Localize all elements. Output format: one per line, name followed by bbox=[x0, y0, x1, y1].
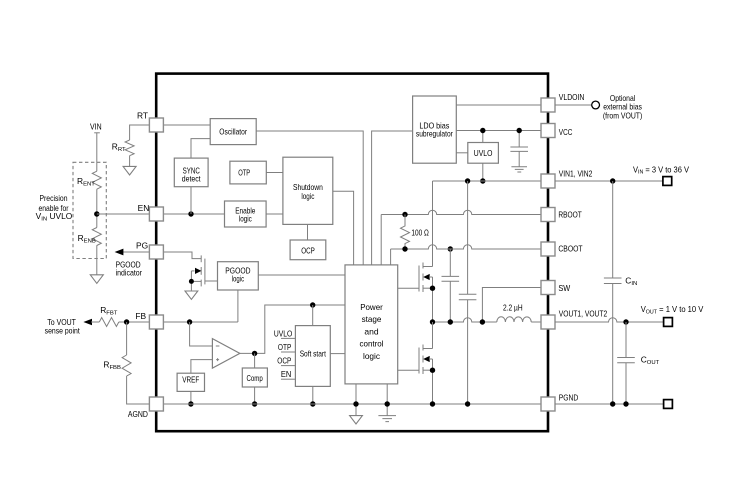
wire VIN pin to input terminal bbox=[555, 180, 663, 182]
pin VOUT1, VOUT2 bbox=[541, 308, 607, 329]
wire CBOOT line with hops bbox=[391, 245, 541, 265]
terminal VIN input bbox=[663, 177, 672, 186]
pin stub EN of soft start bbox=[281, 369, 296, 379]
node FB divider junction bbox=[124, 319, 129, 324]
wire LDO to UVLO bbox=[456, 152, 468, 154]
wire Soft start output to power stage bbox=[330, 353, 345, 355]
ground (triangle) below RRT bbox=[123, 166, 136, 175]
ground (triangle) below RENB bbox=[90, 275, 103, 284]
wire Enable logic to Shutdown logic bbox=[266, 213, 283, 215]
block LDO bias subregulator bbox=[413, 96, 457, 163]
block VREF bbox=[177, 373, 204, 391]
node SW-line left junction bbox=[430, 319, 435, 324]
svg-text:Precision: Precision bbox=[40, 193, 68, 203]
dashed precision-enable box bbox=[73, 162, 106, 258]
pin EN bbox=[138, 203, 164, 221]
node RBOOT-R100 junction bbox=[402, 212, 407, 217]
svg-text:UVLO: UVLO bbox=[274, 328, 293, 338]
wire FB pin to PGOOD vertical bbox=[163, 321, 238, 323]
node VIN-bypass junction bbox=[465, 178, 470, 183]
svg-text:2.2 µH: 2.2 µH bbox=[503, 302, 523, 312]
wire EN pin to Enable logic bbox=[163, 213, 224, 215]
svg-text:VOUT1, VOUT2: VOUT1, VOUT2 bbox=[559, 308, 608, 318]
block Oscillator bbox=[210, 119, 256, 145]
pin stub OTP of soft start bbox=[278, 342, 296, 352]
wire PG FET gate to PGOOD logic bbox=[205, 280, 218, 282]
terminal VLDOIN open circle bbox=[592, 101, 600, 109]
arrow to VOUT sense point bbox=[83, 319, 99, 325]
svg-text:OTP: OTP bbox=[278, 342, 292, 352]
wire Soft start bottom to AGND line bbox=[312, 386, 314, 404]
svg-text:VIN: VIN bbox=[90, 122, 102, 132]
ground (earth) below VCC cap bbox=[511, 167, 527, 172]
svg-text:FB: FB bbox=[135, 311, 146, 321]
wire RBOOT line with hops bbox=[381, 210, 541, 265]
pin stub UVLO of soft start bbox=[274, 328, 296, 338]
node powerstage-gnd2 junction bbox=[385, 401, 390, 406]
capacitor CBOOT bbox=[442, 249, 460, 322]
svg-text:Soft start: Soft start bbox=[300, 349, 327, 359]
node CBOOT-R100 junction bbox=[402, 246, 407, 251]
svg-text:PG: PG bbox=[136, 240, 148, 250]
transistor Q3 low-side FET bbox=[398, 322, 435, 404]
node comp line to soft start junction bbox=[310, 302, 315, 307]
node UVLO-VCC junction bbox=[480, 128, 485, 133]
svg-text:CBOOT: CBOOT bbox=[558, 244, 582, 254]
wire RFBB to AGND bbox=[127, 376, 150, 404]
wire OTP to Shutdown logic bbox=[266, 172, 283, 174]
node SoftStart-AGND junction bbox=[310, 401, 315, 406]
capacitor VCC bypass bbox=[510, 131, 528, 167]
svg-text:UVLO: UVLO bbox=[474, 148, 493, 158]
ground (triangle) analog bbox=[350, 416, 363, 424]
wire FB node down to RFBB bbox=[126, 322, 128, 355]
wire junction down to Soft start bbox=[312, 305, 314, 326]
svg-text:control: control bbox=[360, 339, 384, 349]
svg-text:OCP: OCP bbox=[277, 356, 291, 366]
svg-text:VIN UVLO: VIN UVLO bbox=[36, 211, 73, 222]
wire Shutdown logic output to power stage bbox=[333, 191, 354, 265]
node op-amp output junction bbox=[252, 351, 257, 356]
node VIN bbox=[90, 122, 102, 133]
wire VOUT pin to output terminal with hop bbox=[555, 318, 664, 322]
svg-text:Comp: Comp bbox=[247, 373, 263, 383]
node CBOOT-cap junction bbox=[448, 246, 453, 251]
resistor RRT bbox=[112, 140, 134, 156]
IC boundary box bbox=[156, 74, 548, 432]
wire Oscillator output to power stage bbox=[256, 131, 363, 265]
wire VIN line down to high-side FET drain bbox=[432, 181, 434, 267]
pin VIN1, VIN2 bbox=[541, 169, 593, 188]
svg-text:detect: detect bbox=[182, 173, 201, 183]
svg-text:logic: logic bbox=[232, 273, 244, 283]
wire UVLO bottom to VIN line bbox=[482, 163, 484, 181]
wire CBOOT line to cap gap fill bbox=[446, 248, 454, 250]
svg-text:Oscillator: Oscillator bbox=[219, 126, 247, 136]
wire power stage bottom right to ground rail bbox=[386, 384, 388, 416]
pin RBOOT bbox=[541, 208, 582, 222]
wire SYNC detect top to Oscillator bbox=[191, 139, 210, 159]
node bypass-PGND junction bbox=[465, 401, 470, 406]
wire power stage bottom left to ground rail bbox=[355, 384, 357, 416]
ground (earth) power bbox=[378, 416, 396, 422]
node UVLO-VIN junction bbox=[480, 178, 485, 183]
node LSFET-PGND junction bbox=[430, 401, 435, 406]
wire PGND pin to ground terminal bbox=[555, 403, 664, 405]
block OCP bbox=[290, 240, 326, 260]
capacitor COUT bbox=[617, 322, 659, 404]
terminal PGND bbox=[664, 400, 673, 409]
wire RENB to ground bbox=[96, 245, 98, 274]
block SYNC detect bbox=[174, 158, 208, 187]
wire VREF to op-amp non-inverting input bbox=[191, 360, 213, 374]
svg-text:stage: stage bbox=[362, 314, 382, 324]
resistor R100 100 ohm bbox=[401, 215, 429, 250]
block UVLO bbox=[468, 143, 499, 164]
label precision enable bbox=[36, 193, 73, 222]
svg-text:logic: logic bbox=[239, 213, 252, 223]
wire LDO to VLDOIN pin bbox=[456, 104, 541, 106]
wire Shutdown logic to OCP bbox=[307, 224, 309, 240]
resistor RFBT bbox=[99, 305, 119, 326]
block Power stage and control logic bbox=[345, 265, 398, 384]
op-amp U1 error amplifier bbox=[212, 339, 239, 369]
svg-text:logic: logic bbox=[301, 191, 314, 201]
pin RT bbox=[137, 110, 163, 132]
wire LDO input from power stage bbox=[372, 131, 413, 265]
svg-text:OCP: OCP bbox=[301, 245, 315, 255]
PGOOD indicator arrow bbox=[115, 249, 150, 278]
block Shutdown logic bbox=[283, 157, 333, 224]
node powerstage-gnd1 junction bbox=[353, 401, 358, 406]
block Enable logic bbox=[225, 201, 267, 227]
node PGND-CIN junction bbox=[610, 401, 615, 406]
pin AGND bbox=[128, 397, 163, 419]
svg-text:OTP: OTP bbox=[238, 167, 250, 177]
wire PGOOD logic bottom to FB line bbox=[237, 290, 239, 322]
svg-text:RBOOT: RBOOT bbox=[558, 210, 581, 220]
label VOUT = 1 V to 10 V bbox=[641, 304, 704, 315]
svg-text:AGND: AGND bbox=[128, 409, 148, 419]
label VIN = 3 V to 36 V bbox=[633, 164, 689, 175]
wire PGOOD logic to power stage bbox=[258, 274, 345, 276]
wire SYNC detect bottom to EN line bbox=[190, 187, 192, 214]
wire RRT to ground bbox=[129, 156, 131, 167]
transistor Q1 PG open-drain FET bbox=[189, 255, 205, 291]
node Comp-AGND junction bbox=[252, 401, 257, 406]
wire RENT to EN node bbox=[96, 189, 98, 227]
wire Comp bottom to AGND line bbox=[254, 387, 256, 404]
terminal VOUT output bbox=[664, 318, 673, 327]
block PGOOD logic bbox=[218, 262, 259, 290]
block Soft start bbox=[295, 326, 330, 387]
resistor RENT bbox=[77, 171, 101, 189]
pin SW bbox=[541, 281, 570, 295]
svg-text:PGND: PGND bbox=[559, 392, 578, 402]
wire LDO to VCC pin bbox=[456, 130, 541, 132]
pin VCC bbox=[541, 124, 572, 138]
wire Comp top to op-amp output bbox=[254, 353, 256, 368]
wire VLDOIN to external circle bbox=[555, 104, 591, 106]
node VOUT-COUT junction bbox=[623, 319, 628, 324]
node EN divider junction bbox=[94, 211, 99, 216]
node SW-CBOOTcap junction bbox=[448, 319, 453, 324]
svg-text:100 Ω: 100 Ω bbox=[411, 228, 428, 238]
wire op-amp output to power stage bbox=[240, 305, 345, 353]
node PGND-COUT junction bbox=[623, 401, 628, 406]
svg-text:(from VOUT): (from VOUT) bbox=[603, 111, 643, 121]
node SW-pin wire junction bbox=[480, 319, 485, 324]
capacitor CIN bbox=[604, 181, 637, 404]
svg-text:indicator: indicator bbox=[116, 267, 143, 277]
inductor L1 2.2uH bbox=[497, 302, 541, 322]
block Comp bbox=[242, 368, 267, 387]
label To VOUT sense point bbox=[45, 317, 81, 336]
resistor RFBB bbox=[103, 355, 131, 376]
wire VIN1,VIN2 line bbox=[433, 180, 542, 182]
svg-text:SW: SW bbox=[558, 283, 570, 293]
pin PGND bbox=[541, 392, 578, 411]
wire FB to op-amp inverting input bbox=[190, 322, 213, 346]
wire AGND pin to PGND pin (ground rail) bbox=[163, 403, 541, 405]
transistor Q2 high-side FET bbox=[398, 263, 435, 323]
capacitor VIN internal bypass bbox=[459, 181, 477, 404]
wire SW pin to switch node bbox=[482, 288, 541, 323]
pin PG bbox=[136, 240, 163, 259]
svg-text:VREF: VREF bbox=[182, 374, 199, 384]
wire switch node line with hop and inductor bbox=[433, 318, 497, 322]
svg-text:RT: RT bbox=[137, 110, 148, 120]
node FB line junction bbox=[187, 319, 192, 324]
pin stub OCP of soft start bbox=[277, 356, 295, 366]
wire VIN down to RENT bbox=[96, 133, 98, 171]
pin VLDOIN bbox=[541, 92, 584, 112]
pin CBOOT bbox=[541, 242, 583, 256]
node VREF-AGND junction bbox=[188, 401, 193, 406]
svg-text:VLDOIN: VLDOIN bbox=[559, 92, 585, 102]
label optional external bias bbox=[603, 93, 643, 121]
ground (triangle) below PG FET bbox=[185, 291, 198, 299]
svg-text:subregulator: subregulator bbox=[416, 129, 453, 139]
node VCCcap-VCC junction bbox=[517, 128, 522, 133]
node VIN-CIN junction bbox=[610, 178, 615, 183]
svg-text:and: and bbox=[364, 326, 379, 336]
wire RT pin to Oscillator bbox=[163, 124, 210, 126]
wire VREF bottom to AGND line bbox=[190, 391, 192, 404]
svg-text:logic: logic bbox=[363, 351, 380, 361]
wire RT pin to RRT bbox=[130, 125, 150, 140]
svg-text:EN: EN bbox=[281, 369, 291, 379]
resistor RENB bbox=[78, 228, 102, 246]
node EN-SYNC junction bbox=[188, 211, 193, 216]
wire EN node to EN pin bbox=[97, 213, 150, 215]
svg-text:Power: Power bbox=[360, 302, 383, 312]
pin FB bbox=[135, 311, 163, 329]
svg-text:sense point: sense point bbox=[45, 326, 81, 336]
wire PG pin to PG FET drain bbox=[163, 252, 201, 259]
svg-text:VCC: VCC bbox=[559, 127, 573, 137]
svg-text:EN: EN bbox=[138, 203, 150, 213]
block OTP bbox=[230, 161, 266, 184]
svg-text:VIN1, VIN2: VIN1, VIN2 bbox=[559, 169, 593, 179]
wire RFBT to FB pin bbox=[119, 321, 150, 323]
wire UVLO top to VCC line bbox=[482, 131, 484, 143]
